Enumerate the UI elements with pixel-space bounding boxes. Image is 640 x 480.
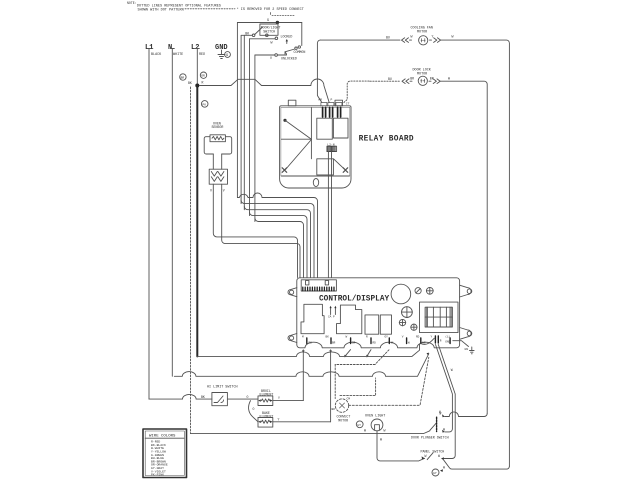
- svg-text:BK: BK: [188, 81, 192, 85]
- board circle cross 3: [411, 324, 417, 330]
- terminal link squiggle: [421, 338, 435, 344]
- connector sub box 2: [325, 281, 328, 285]
- ground symbol at GND terminal: [218, 50, 225, 59]
- unlocked row wire: [255, 52, 287, 55]
- svg-text:W: W: [425, 454, 427, 458]
- wire L1 to hi limit with hop: [149, 394, 212, 399]
- svg-text:DOOR PLUNGER SWITCH: DOOR PLUNGER SWITCH: [411, 435, 449, 439]
- locked row wire: [250, 38, 276, 40]
- oven sensor connector box: [209, 169, 227, 184]
- relay board lower-middle box: [317, 159, 334, 175]
- svg-text:RD: RD: [416, 336, 420, 339]
- svg-text:R: R: [440, 340, 442, 343]
- wire convect dashed feed horizontal: [335, 364, 375, 366]
- wire CT dotted to relay pin 3: [344, 81, 370, 102]
- board circle slash: [415, 288, 421, 294]
- svg-text:CM: CM: [347, 398, 351, 401]
- relay pins group 3: [338, 108, 341, 118]
- svg-text:R: R: [366, 336, 368, 339]
- svg-text:BK: BK: [332, 408, 336, 411]
- svg-text:V: V: [270, 56, 272, 60]
- oven sensor body: [204, 137, 232, 154]
- svg-text:W: W: [380, 438, 382, 442]
- ear hole left top: [290, 290, 294, 294]
- svg-text:GND: GND: [445, 341, 450, 344]
- svg-text:PANEL SWITCH: PANEL SWITCH: [421, 449, 445, 453]
- cooling fan label: [411, 27, 433, 35]
- svg-text:Y: Y: [431, 336, 433, 339]
- wire N vertical: [170, 49, 174, 377]
- wire L2 run under board: [197, 344, 419, 356]
- relay pin header boxes: [321, 103, 342, 107]
- relay rectangle 2: [333, 118, 348, 138]
- svg-text:R: R: [202, 81, 204, 85]
- svg-text:O: O: [253, 407, 255, 411]
- svg-text:V: V: [402, 336, 404, 339]
- convect motor inner marks: [340, 403, 345, 408]
- relay L2N component box: [327, 146, 337, 151]
- panel switch arm: [427, 453, 433, 460]
- cooling fan motor circle: [419, 36, 428, 45]
- svg-text:G: G: [226, 54, 228, 58]
- wire bake out: [273, 421, 331, 423]
- broil element box: [258, 396, 273, 406]
- wire junction-to-relay (L2 to relay pin P) with hops: [200, 79, 330, 103]
- relay board bottom rail: [281, 175, 349, 177]
- ear hole right bottom: [467, 331, 472, 336]
- svg-text:G: G: [267, 19, 269, 23]
- door/light switch box: [260, 24, 278, 35]
- note: secondary dotted leader: [272, 15, 295, 17]
- note dotted leader: [185, 8, 235, 10]
- board circle cross big: [402, 307, 413, 318]
- relay board bottom oval hole: [313, 179, 318, 187]
- svg-text:BR: BR: [430, 76, 434, 80]
- pole1 box contact circle: [266, 34, 269, 37]
- convect motor label: [337, 415, 351, 423]
- door lock motor marks: [421, 79, 425, 82]
- wire L2 bold lower vertical: [196, 86, 198, 357]
- oven light filament: [375, 425, 380, 431]
- svg-text:W: W: [439, 410, 441, 414]
- svg-text:MOTOR: MOTOR: [338, 418, 348, 422]
- svg-text:GY: GY: [357, 424, 361, 427]
- svg-text:BU: BU: [386, 36, 390, 40]
- cooling fan wire right to corner: [441, 40, 510, 466]
- bundle wire 1 to connector: [237, 193, 317, 278]
- relay board top tab right: [335, 100, 343, 106]
- display outer box: [420, 302, 459, 333]
- door plunger bottom contact arrow: [442, 430, 445, 433]
- relay board screw X left: [282, 168, 287, 173]
- legend box outer: [143, 429, 187, 478]
- convect dashed wiring right: [349, 357, 429, 405]
- svg-text:W: W: [451, 368, 453, 372]
- cooling fan motor marks: [421, 39, 425, 42]
- svg-text:(1): (1): [445, 335, 450, 339]
- svg-text:BK: BK: [245, 31, 249, 35]
- svg-text:W: W: [408, 342, 410, 345]
- oven sensor label: [212, 122, 224, 130]
- svg-text:Y: Y: [278, 418, 280, 422]
- svg-text:OR: OR: [201, 75, 205, 78]
- keypad small rect 1: [365, 315, 379, 334]
- hi limit switch glyph: [214, 396, 224, 403]
- broil output vertical: [302, 350, 304, 401]
- svg-text:NL: NL: [391, 342, 395, 345]
- broil element zigzag: [261, 399, 269, 402]
- wire split to bake: [249, 401, 258, 422]
- svg-text:SWITCH: SWITCH: [263, 30, 275, 34]
- door lock wire left dotted: [370, 80, 400, 82]
- svg-text:LOCKED: LOCKED: [281, 35, 293, 39]
- wire panel to cooling fan return: [444, 460, 510, 469]
- wire broil out: [273, 400, 304, 402]
- cooling fan connector chevrons left: [402, 38, 412, 43]
- panel switch left contact arrow: [422, 456, 425, 459]
- svg-text:P: P: [331, 99, 333, 102]
- door/light switch box text: [261, 26, 281, 34]
- svg-text:RD: RD: [373, 342, 377, 345]
- locked position arrow: [286, 41, 288, 44]
- bake element arrows: [258, 421, 272, 423]
- common switch arm: [285, 49, 295, 54]
- svg-text:PK: PK: [202, 103, 206, 106]
- svg-text:MOTOR: MOTOR: [417, 31, 427, 35]
- display inner box: [425, 307, 452, 327]
- connector pin band: [303, 287, 334, 291]
- svg-text:GN: GN: [465, 348, 469, 351]
- terminal diagonal stub 2: [367, 350, 371, 357]
- svg-text:UNLOCKED: UNLOCKED: [281, 57, 297, 61]
- arrow into GY: [440, 469, 443, 472]
- svg-text:W: W: [411, 35, 413, 39]
- svg-text:W: W: [448, 76, 450, 80]
- relay board diagonal 3: [334, 159, 345, 170]
- bundle wire 3 to connector: [244, 206, 310, 277]
- switch assembly vertical wire 3: [243, 35, 245, 209]
- node L2 junction dot: [195, 84, 199, 88]
- control board outline: [297, 278, 460, 348]
- svg-text:W: W: [384, 428, 386, 432]
- connector sub box 1: [306, 281, 309, 285]
- broil element label: [260, 389, 274, 397]
- svg-text:W: W: [443, 427, 445, 431]
- control board ear left bottom: [288, 334, 297, 343]
- wire AR: cooling fan feed to relay pin 1: [317, 40, 321, 102]
- svg-text:OVEN LIGHT: OVEN LIGHT: [365, 415, 385, 419]
- oven light GY circle: [356, 421, 363, 428]
- oven light circle: [371, 419, 383, 431]
- svg-text:AR: AR: [318, 99, 322, 102]
- legend entries: [151, 440, 168, 477]
- svg-text:CA P: CA P: [328, 315, 335, 318]
- wire color callout circle PK: [201, 101, 208, 108]
- svg-text:L2: L2: [191, 44, 199, 52]
- wire color callout circle BR: [180, 74, 186, 80]
- svg-text:BR: BR: [332, 342, 336, 345]
- oven sensor connector chevrons: [211, 172, 224, 182]
- door lock motor label: [413, 69, 432, 77]
- svg-text:OR: OR: [352, 342, 356, 345]
- arrow into panel right contact: [441, 457, 444, 460]
- panel GY circle: [432, 469, 439, 476]
- door plunger common arm: [430, 423, 437, 431]
- switch assembly vertical wire 4: [249, 39, 251, 216]
- keypad pins CA P: [331, 308, 336, 315]
- board circle cross 1: [426, 287, 433, 294]
- svg-text:BU: BU: [388, 77, 392, 81]
- svg-text:SHOWN WITH DOT PATTERN: SHOWN WITH DOT PATTERN: [138, 8, 184, 12]
- svg-text:O: O: [247, 395, 249, 399]
- svg-text:BR: BR: [410, 76, 414, 80]
- node dot on G wire: [276, 21, 279, 24]
- switch assembly vertical wire 1: [236, 23, 238, 198]
- relay board top tab left: [288, 100, 296, 106]
- svg-text:PK-PINK: PK-PINK: [151, 473, 164, 477]
- svg-text:HI LIMIT SWITCH: HI LIMIT SWITCH: [207, 385, 238, 389]
- svg-text:BR: BR: [181, 77, 185, 80]
- bundle wire 5 to connector: [255, 218, 304, 278]
- ground callout circle G: [225, 52, 231, 59]
- board GND symbol: [465, 347, 475, 354]
- door lock motor circle: [418, 76, 427, 85]
- unlocked contact circle: [275, 54, 278, 57]
- door/light switch top wire (G): [237, 22, 301, 24]
- wire convect dashed feed diagonal: [375, 350, 389, 365]
- board GND wire: [453, 341, 469, 347]
- relay pins group 1: [323, 108, 326, 118]
- svg-text:V: V: [210, 189, 212, 193]
- door plunger link dashed: [436, 417, 438, 431]
- bake element zigzag: [261, 420, 269, 423]
- svg-text:Y: Y: [278, 396, 280, 400]
- svg-text:NOTE:: NOTE:: [127, 1, 137, 5]
- display inner hatch bands: [426, 307, 451, 327]
- wire L1 vertical: [147, 49, 151, 400]
- oven sensor lead wires: [213, 154, 221, 169]
- wire plunger top to door lock return: [445, 412, 487, 417]
- convect dashed wiring top: [340, 378, 376, 396]
- cooling fan wire left: [320, 39, 400, 41]
- svg-text:WHITE: WHITE: [173, 53, 183, 57]
- svg-text:W: W: [271, 41, 273, 45]
- sensor wire to connector B: [222, 184, 300, 277]
- relay board diagonal 1: [285, 120, 311, 139]
- svg-text:* IS REMOVED FOR 2 SPEED CONNE: * IS REMOVED FOR 2 SPEED CONNECT: [237, 7, 304, 12]
- legend box inner: [145, 431, 184, 476]
- control board ear right top: [460, 285, 472, 297]
- door plunger top contact arrow: [442, 414, 445, 417]
- relay L2N component hatch: [328, 146, 335, 151]
- relay board left cell dot: [283, 119, 286, 122]
- relay to control connector wire pair: [328, 152, 331, 278]
- svg-text:N: N: [168, 44, 172, 52]
- svg-text:V: V: [223, 189, 225, 193]
- svg-text:W: W: [364, 428, 366, 432]
- pole1 switch arm: [255, 27, 263, 35]
- wire convect dashed feed vertical: [334, 365, 336, 399]
- svg-text:W: W: [438, 454, 440, 458]
- wire optional dashed from junction: [190, 87, 192, 434]
- relay board inner border: [281, 107, 350, 176]
- bundle wire 2 to connector: [241, 200, 314, 277]
- relay rectangle 1: [317, 118, 333, 139]
- relay pins group 2: [330, 108, 333, 118]
- oven light stem: [377, 431, 425, 461]
- bottom line from optional dashed: [191, 431, 430, 434]
- door lock wire right to corner: [440, 81, 487, 413]
- common feed vertical from G wire: [301, 23, 303, 46]
- wire plunger bottom to board: [436, 345, 453, 432]
- door lock connector chevrons right: [429, 79, 440, 84]
- svg-text:BK: BK: [326, 336, 330, 339]
- svg-text:CONTROL/DISPLAY: CONTROL/DISPLAY: [319, 296, 390, 304]
- svg-text:W: W: [452, 35, 454, 39]
- relay board screw X right: [343, 168, 348, 173]
- keypad shape 1: [301, 304, 324, 333]
- switch assembly vertical wire 5: [254, 55, 256, 222]
- keypad shape 2: [337, 305, 362, 334]
- relay board diagonal 2: [286, 140, 312, 170]
- sensor wire to connector A: [213, 184, 297, 277]
- svg-text:B2: B2: [309, 342, 313, 345]
- svg-text:SENSOR: SENSOR: [212, 125, 224, 129]
- pole1 wire BK: [244, 34, 252, 36]
- svg-text:BK: BK: [201, 395, 205, 399]
- terminal diagonal stub 1: [345, 350, 351, 357]
- ear hole left bottom: [290, 336, 294, 340]
- svg-text:M: M: [302, 336, 304, 339]
- hi limit switch box: [212, 393, 228, 406]
- wire hi limit to broil: [227, 398, 258, 400]
- control board ear right bottom: [460, 328, 472, 340]
- oven sensor resistor zigzag: [212, 136, 224, 139]
- display grid: [425, 307, 452, 327]
- cooling fan connector chevrons right: [430, 38, 441, 43]
- bake element box: [258, 418, 273, 428]
- relay board left cell: [281, 108, 311, 159]
- svg-text:W: W: [443, 466, 445, 470]
- wire color callout circle OR: [200, 72, 206, 78]
- broil element arrows: [258, 399, 272, 401]
- bake element label: [260, 411, 274, 419]
- wire N run under board: [174, 354, 428, 377]
- svg-text:RELAY BOARD: RELAY BOARD: [359, 136, 414, 144]
- keypad small rect 2: [380, 315, 391, 334]
- locked contact circle: [275, 37, 278, 40]
- oven sensor resistor box: [210, 135, 225, 142]
- common contact circles: [295, 47, 297, 49]
- convect motor dashed circle: [335, 399, 348, 412]
- terminal arrowheads under board: [302, 350, 369, 357]
- board-to-plunger second wire: [438, 345, 455, 459]
- legend header rule: [145, 437, 184, 439]
- control board top connector: [301, 280, 336, 291]
- board circle cross 2: [399, 319, 405, 325]
- arrow N to board: [427, 353, 429, 356]
- bundle wire 4 to connector: [250, 212, 308, 277]
- switch assembly vertical wire 2: [241, 35, 244, 203]
- svg-text:GY: GY: [385, 336, 389, 339]
- svg-text:COMMON: COMMON: [294, 50, 306, 54]
- svg-text:RED: RED: [199, 53, 205, 57]
- board big circle: [391, 284, 411, 304]
- board bottom terminals and labels: [307, 336, 450, 344]
- door lock connector chevrons left: [402, 79, 412, 84]
- svg-text:BLACK: BLACK: [151, 53, 162, 57]
- svg-text:W: W: [346, 336, 348, 339]
- svg-text:CT: CT: [346, 103, 350, 106]
- note text block: [127, 1, 221, 12]
- bake output vertical: [330, 350, 332, 422]
- ear hole right top: [467, 289, 472, 294]
- svg-text:GY: GY: [433, 472, 437, 475]
- pole1 contact circle: [252, 34, 255, 37]
- control board ear left top: [288, 288, 297, 297]
- relay board outline: [280, 106, 351, 188]
- wire L2 vertical upper: [195, 49, 199, 86]
